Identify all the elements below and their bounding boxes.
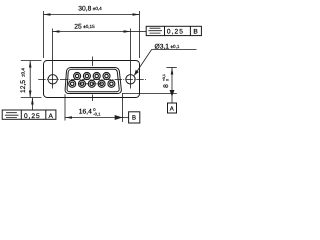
FCF frame top right leader stub — [131, 31, 147, 33]
symmetry symbol in FCF B — [148, 28, 162, 33]
datum triangle B right — [115, 115, 123, 120]
mounting hole left — [48, 75, 57, 84]
svg-text:A: A — [170, 105, 174, 112]
svg-text:12,5: 12,5 — [20, 80, 27, 93]
dimension text 16,4 +0/-0,1 — [79, 107, 101, 116]
mounting hole right — [126, 75, 135, 84]
svg-text:-0,1: -0,1 — [93, 112, 101, 117]
arrowhead leader dia — [134, 70, 139, 76]
svg-text:8: 8 — [163, 84, 170, 88]
svg-text:25: 25 — [74, 24, 82, 31]
hole centerline vertical left / extension for 25 dim — [52, 29, 54, 89]
socket contacts bottom row (5) — [69, 80, 115, 87]
extension line 16,4 right — [122, 93, 124, 122]
dimension line 8 with stem to datum A — [171, 68, 173, 104]
svg-text:±0,15: ±0,15 — [83, 24, 95, 29]
centermark dashes through bottom row contacts — [79, 83, 105, 85]
svg-text:B: B — [132, 115, 136, 122]
arrowhead 12,5 bottom — [29, 91, 32, 98]
svg-text:0,25: 0,25 — [167, 28, 184, 35]
svg-text:Ø3,1: Ø3,1 — [155, 43, 170, 50]
datum box A — [168, 103, 177, 113]
extension line 16,4 left — [64, 94, 66, 120]
svg-text:±0,4: ±0,4 — [21, 68, 26, 77]
dimension line 30,8 — [44, 14, 140, 16]
svg-text:B: B — [193, 28, 198, 35]
arrowhead 12,5 top — [29, 61, 32, 68]
dimension text 25 ±0,15 — [74, 24, 95, 31]
FCF frame bottom left — [2, 110, 56, 119]
svg-text:±0,4: ±0,4 — [93, 6, 102, 11]
socket contacts top row (4) — [74, 73, 110, 80]
arrowhead 25 left — [53, 30, 60, 33]
arrowhead FCF A leader — [31, 98, 34, 105]
vertical centerline of shell — [92, 57, 94, 102]
extension line 8 top (short) — [167, 67, 177, 69]
extension line 12,5 top — [21, 60, 42, 62]
arrowhead 30,8 right — [133, 13, 140, 16]
shell inner outline — [67, 69, 119, 91]
extension line 30,8 left — [43, 11, 45, 58]
hole centerline vertical right / extension for 25 dim — [130, 29, 132, 89]
arrowhead 16,4 left — [65, 116, 72, 119]
dimension line 25 — [53, 31, 131, 33]
horizontal centerline — [38, 79, 147, 81]
FCF frame top right — [146, 26, 201, 35]
datum box B — [129, 112, 140, 123]
dimension text ø3,1 ±0,1 — [155, 43, 180, 50]
dimension text 8 ±0,1 (rotated) — [162, 74, 170, 88]
dimension text 12,5 ±0,4 (rotated) — [20, 68, 27, 93]
extension line 12,5 bottom — [21, 97, 42, 99]
leader FCF A to flange bottom — [32, 98, 34, 110]
shell outer outline — [65, 67, 121, 93]
svg-text:30,8: 30,8 — [78, 5, 91, 12]
arrowhead 8 top — [171, 68, 174, 75]
FCF A text 0,25 A — [24, 113, 54, 120]
connector flange outline — [44, 61, 140, 98]
datum triangle A bottom — [170, 90, 175, 97]
dimension line 16,4 with stub to datum B — [65, 117, 129, 119]
FCF B text 0,25 B — [167, 28, 199, 35]
arrowhead 30,8 left — [44, 13, 51, 16]
arrowhead 25 right — [124, 30, 131, 33]
svg-text:A: A — [49, 113, 54, 120]
svg-text:±0,1: ±0,1 — [171, 44, 180, 49]
dimension text 30,8 ±0,4 — [78, 5, 102, 12]
svg-text:16,4: 16,4 — [79, 109, 92, 116]
svg-text:0,25: 0,25 — [24, 113, 41, 120]
dimension line 12,5 — [29, 61, 31, 98]
svg-text:0: 0 — [165, 79, 169, 81]
symmetry symbol in FCF A — [5, 113, 19, 118]
extension line 30,8 right — [139, 11, 141, 58]
extension line 8 bottom (shell bottom edge extended) — [122, 93, 177, 95]
leader line for hole diameter — [134, 50, 196, 76]
